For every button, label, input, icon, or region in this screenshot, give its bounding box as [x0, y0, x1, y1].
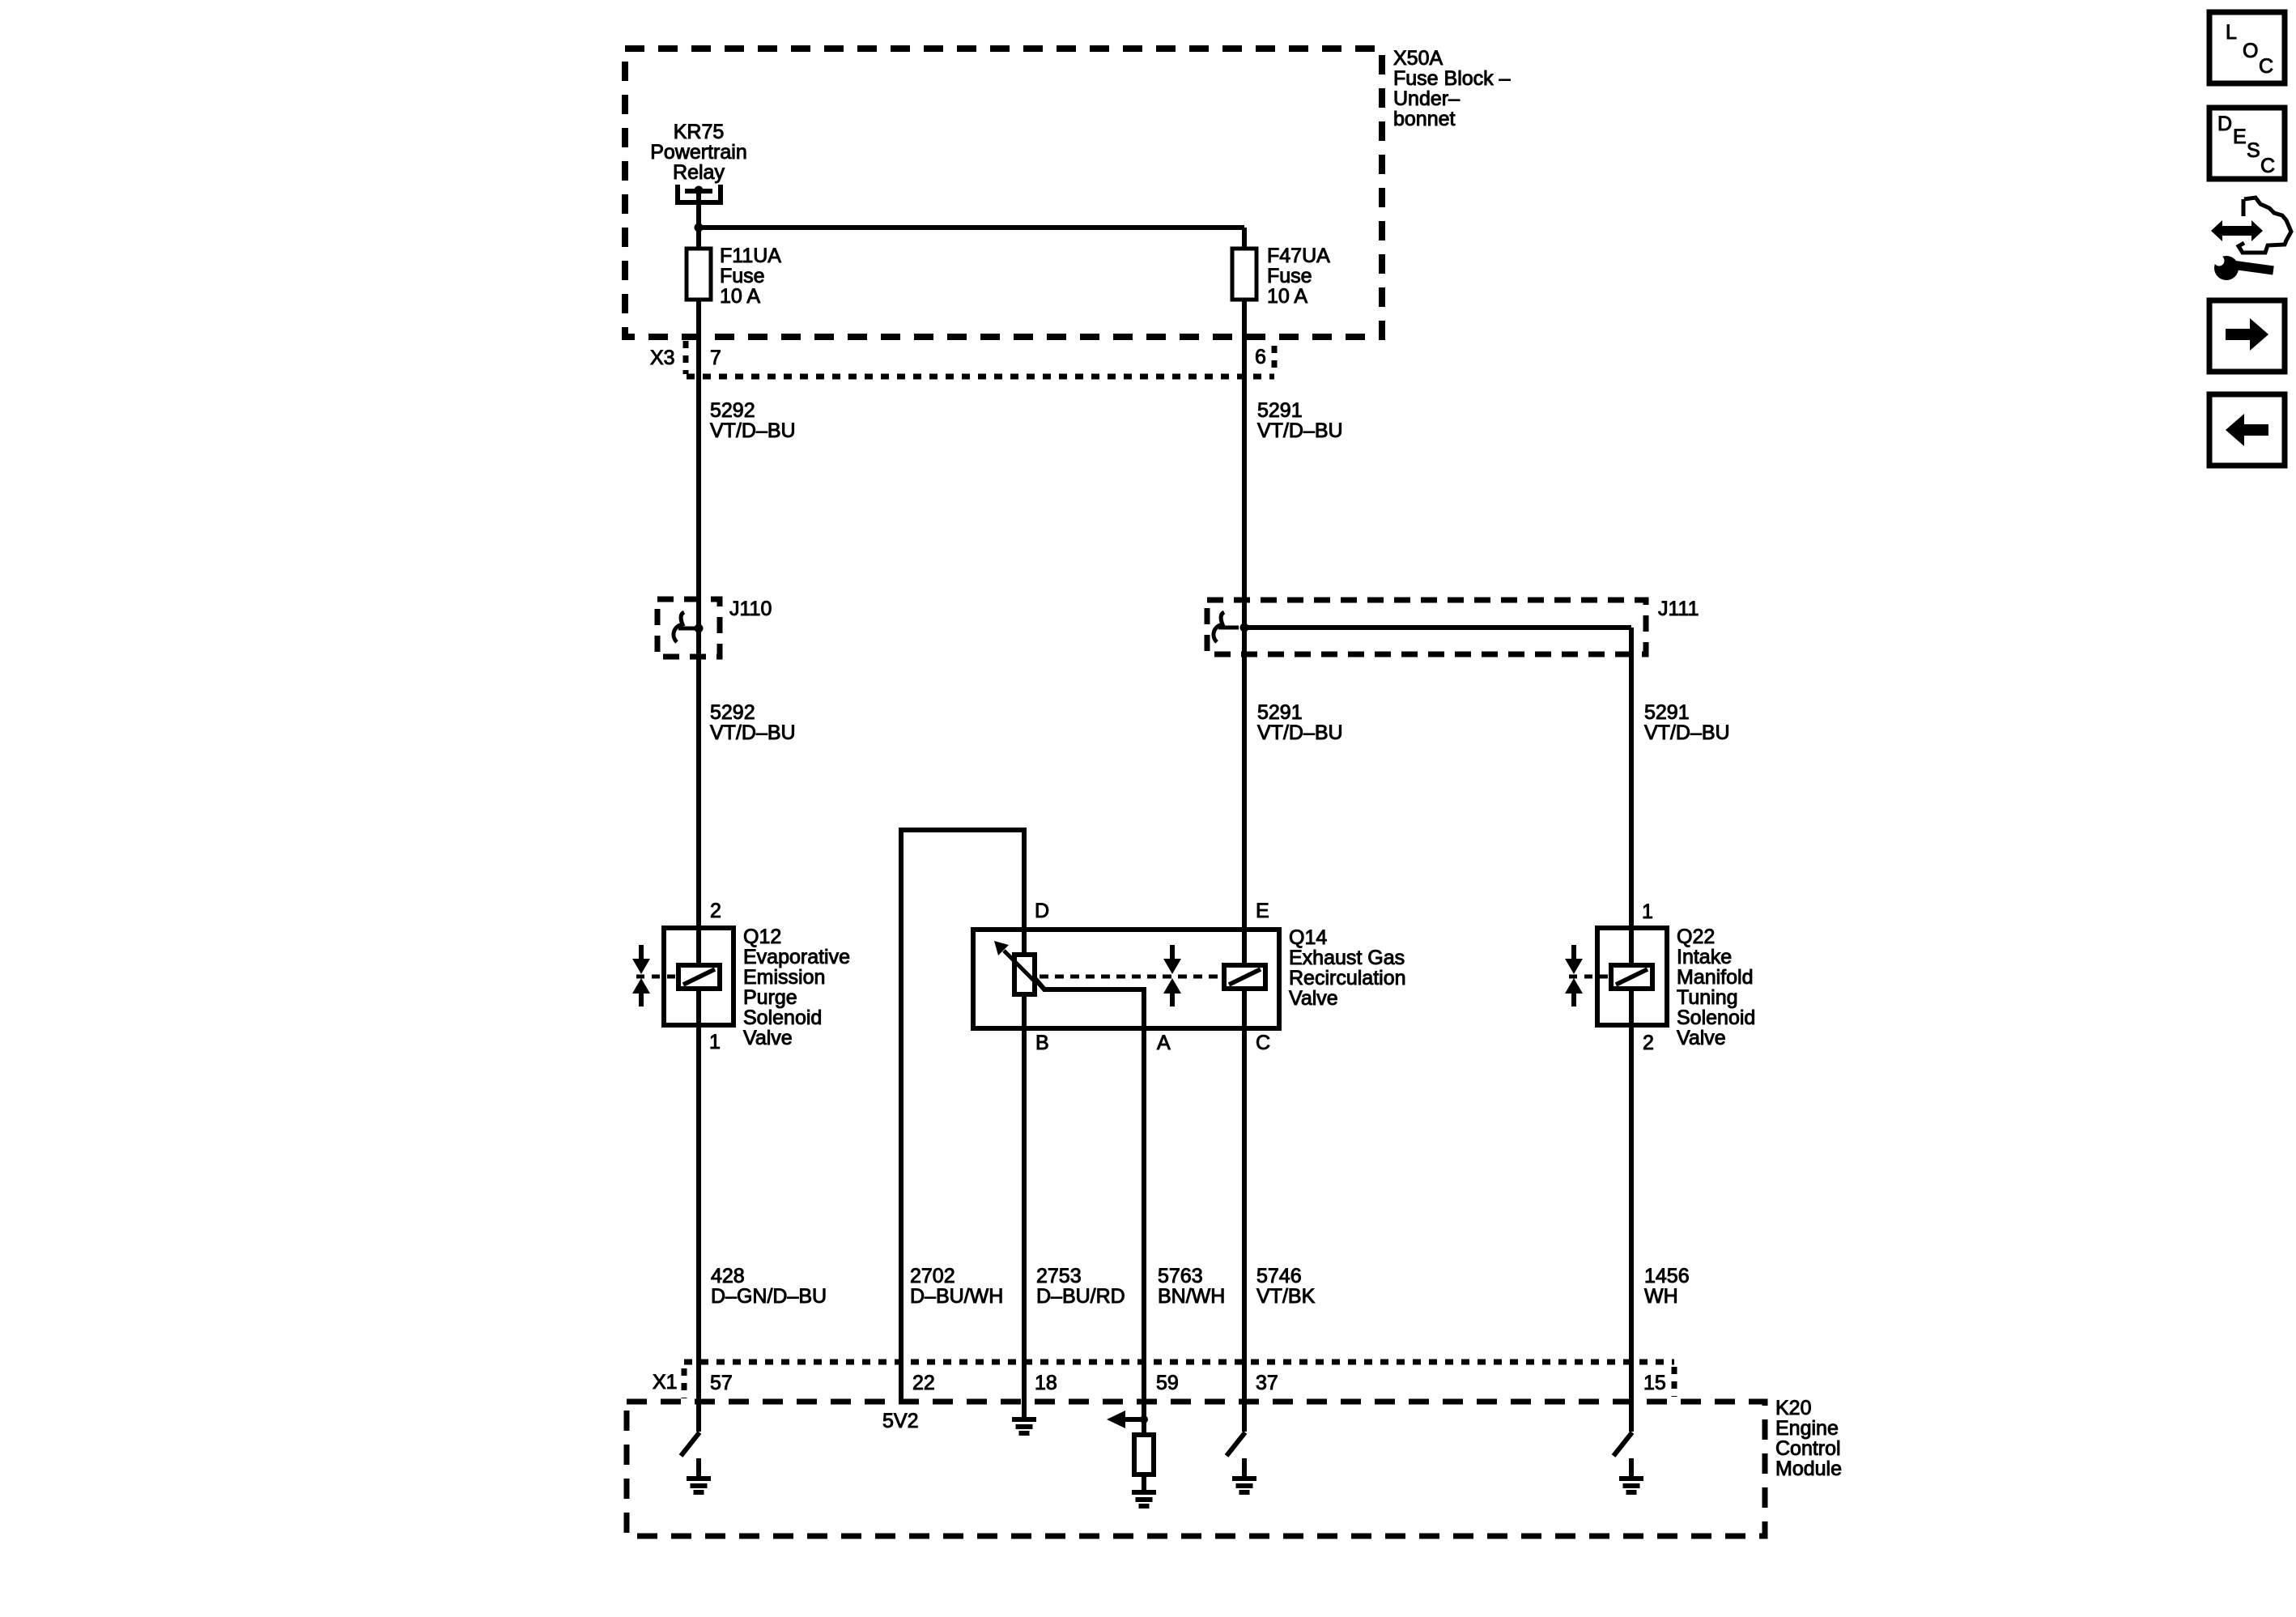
svg-text:J111: J111 [1658, 598, 1699, 620]
svg-text:1456: 1456 [1644, 1265, 1690, 1287]
svg-text:VT/BK: VT/BK [1256, 1285, 1316, 1308]
svg-text:Q14: Q14 [1289, 926, 1327, 949]
svg-text:C: C [1256, 1032, 1270, 1054]
svg-text:Q12: Q12 [743, 926, 781, 948]
svg-text:K20: K20 [1775, 1397, 1811, 1419]
splice J111 hook [1214, 612, 1224, 642]
Q14 actuator arrows [1170, 945, 1175, 960]
svg-text:D: D [1035, 900, 1049, 922]
wire J111 branch to Q22 [1244, 625, 1631, 630]
svg-text:Exhaust Gas: Exhaust Gas [1289, 947, 1405, 969]
wire through Q22 [1629, 928, 1634, 965]
svg-text:5V2: 5V2 [882, 1410, 918, 1432]
wire 5746 Q14 pin C to ECM pin 37 [1242, 1028, 1247, 1432]
Q14 solenoid coil [1224, 965, 1265, 989]
svg-text:J110: J110 [729, 598, 772, 620]
svg-text:D–GN/D–BU: D–GN/D–BU [711, 1285, 827, 1308]
svg-text:37: 37 [1256, 1372, 1278, 1394]
svg-text:Module: Module [1775, 1457, 1842, 1480]
ground (pin 59) [1132, 1490, 1156, 1495]
relay KR75 symbol [675, 185, 680, 202]
valve Q12 solenoid coil [678, 965, 720, 989]
svg-text:Valve: Valve [1289, 987, 1338, 1010]
svg-text:5291: 5291 [1257, 399, 1303, 422]
svg-text:Control: Control [1775, 1437, 1841, 1460]
svg-text:Engine: Engine [1775, 1417, 1839, 1440]
svg-text:bonnet: bonnet [1393, 108, 1456, 130]
svg-text:Fuse Block –: Fuse Block – [1393, 67, 1511, 90]
valve Q22 actuator arrows [1571, 945, 1576, 960]
svg-text:Recirculation: Recirculation [1289, 967, 1406, 989]
icon previous page arrow button [2209, 394, 2285, 466]
svg-text:D: D [2217, 113, 2232, 135]
svg-text:Solenoid: Solenoid [1677, 1006, 1755, 1029]
svg-text:1: 1 [1642, 900, 1653, 923]
svg-text:O: O [2243, 40, 2258, 62]
svg-text:Intake: Intake [1677, 946, 1732, 968]
svg-text:WH: WH [1644, 1285, 1678, 1308]
Q14 pot wires [1022, 930, 1027, 955]
svg-text:2702: 2702 [910, 1265, 955, 1287]
svg-text:Solenoid: Solenoid [743, 1006, 822, 1029]
ground (pin 18) [1012, 1417, 1036, 1422]
svg-text:Valve: Valve [743, 1027, 793, 1049]
svg-text:7: 7 [710, 347, 721, 369]
svg-text:F47UA: F47UA [1267, 245, 1330, 267]
splice J110 hook [674, 612, 684, 642]
svg-text:E: E [2233, 126, 2247, 148]
module K20 ECM dashed box [627, 1402, 1765, 1536]
svg-text:X1: X1 [653, 1371, 678, 1394]
wire feed to F47UA [699, 225, 1244, 230]
fuse F11UA [687, 249, 711, 300]
svg-text:5763: 5763 [1158, 1265, 1203, 1287]
wire 428 Q12 to ECM pin 57 [696, 1025, 701, 1432]
wire relay to fuse F11UA [696, 190, 701, 248]
signal arrow (pin 59) [1124, 1417, 1144, 1422]
svg-text:Purge: Purge [743, 986, 797, 1009]
svg-text:E: E [1256, 900, 1269, 922]
svg-text:5746: 5746 [1256, 1265, 1302, 1287]
svg-text:A: A [1157, 1032, 1171, 1054]
junction node [695, 223, 704, 232]
svg-text:KR75: KR75 [674, 121, 725, 143]
svg-text:VT/D–BU: VT/D–BU [1257, 419, 1343, 442]
fuse block X50A dashed box [625, 49, 1382, 337]
ECM pin 59 sense node [1140, 1415, 1148, 1423]
icon hand with double arrow and wrench [2222, 226, 2252, 236]
svg-text:Under–: Under– [1393, 87, 1460, 110]
Q14 pot arrow [1004, 951, 1038, 985]
svg-text:D–BU/RD: D–BU/RD [1036, 1285, 1125, 1308]
wire through Q12 [696, 928, 701, 965]
svg-text:2: 2 [1643, 1032, 1654, 1054]
svg-text:18: 18 [1035, 1372, 1057, 1394]
ground (pin 15) [1629, 1458, 1634, 1476]
splice J111 dashed box [1207, 600, 1646, 654]
svg-text:22: 22 [912, 1372, 935, 1394]
valve Q12 box [664, 928, 733, 1025]
connector X3 strip [687, 374, 1274, 380]
Q14 mech link dashed line [1040, 975, 1224, 979]
svg-text:Evaporative: Evaporative [743, 946, 850, 968]
svg-text:B: B [1035, 1032, 1049, 1054]
svg-text:2753: 2753 [1036, 1265, 1082, 1287]
svg-text:F11UA: F11UA [720, 245, 781, 267]
svg-text:VT/D–BU: VT/D–BU [1644, 721, 1730, 744]
valve Q22 box [1597, 928, 1667, 1025]
valve Q22 mech link dashes [1569, 975, 1611, 979]
svg-text:Tuning: Tuning [1677, 986, 1738, 1009]
svg-text:X3: X3 [650, 347, 675, 369]
svg-text:5292: 5292 [710, 701, 755, 724]
wire 5292 fuse to Q12 [696, 301, 701, 928]
svg-text:Q22: Q22 [1677, 926, 1715, 948]
icon LOC button [2209, 12, 2285, 83]
Q14 wiper to pin A [1035, 978, 1144, 1028]
svg-text:1: 1 [709, 1031, 721, 1053]
svg-text:C: C [2259, 55, 2273, 78]
ground (pin 57) [696, 1458, 701, 1476]
wire Q14 pin D to ECM pin 22 (5V2 feed) [901, 830, 1024, 1402]
icon next page arrow button [2209, 300, 2285, 372]
svg-text:VT/D–BU: VT/D–BU [710, 419, 796, 442]
svg-text:VT/D–BU: VT/D–BU [710, 721, 796, 744]
svg-text:5291: 5291 [1257, 701, 1303, 724]
svg-text:D–BU/WH: D–BU/WH [910, 1285, 1003, 1308]
svg-text:Relay: Relay [673, 161, 725, 184]
svg-text:10 A: 10 A [720, 285, 760, 308]
svg-text:C: C [2260, 155, 2275, 177]
svg-text:X50A: X50A [1393, 47, 1443, 70]
svg-text:5292: 5292 [710, 399, 755, 422]
wire 5291 fuse to Q14 [1242, 301, 1247, 930]
valve Q14 box [973, 930, 1279, 1028]
wire 5763 Q14 pin A to ECM pin 59 [1142, 1028, 1146, 1419]
svg-text:Manifold: Manifold [1677, 966, 1754, 989]
svg-text:6: 6 [1255, 346, 1266, 368]
svg-text:15: 15 [1643, 1372, 1666, 1394]
svg-text:428: 428 [711, 1265, 745, 1287]
svg-text:57: 57 [710, 1372, 733, 1394]
ECM pin 37 driver switch [1227, 1432, 1245, 1456]
Q14 potentiometer [1014, 955, 1035, 994]
svg-text:10 A: 10 A [1267, 285, 1307, 308]
icon DESC button [2209, 108, 2285, 179]
svg-text:5291: 5291 [1644, 701, 1690, 724]
ground (pin 37) [1242, 1458, 1247, 1476]
ECM pin 57 driver switch [681, 1432, 699, 1456]
svg-text:2: 2 [710, 900, 721, 922]
valve Q12 actuator arrows [639, 945, 644, 960]
ECM pin 15 driver switch [1614, 1432, 1632, 1456]
svg-text:Fuse: Fuse [720, 265, 765, 287]
splice J110 dashed box [657, 599, 720, 657]
fuse F47UA [1232, 249, 1256, 300]
wire 1456 Q22 to ECM pin 15 [1629, 1025, 1634, 1432]
resistor (pin 59 pull-up) [1142, 1419, 1146, 1435]
svg-text:BN/WH: BN/WH [1158, 1285, 1225, 1308]
svg-text:Valve: Valve [1677, 1027, 1726, 1049]
svg-text:S: S [2247, 139, 2260, 162]
wire 2753 Q14 pin B to ECM pin 18 [1022, 1028, 1027, 1419]
svg-text:L: L [2226, 21, 2237, 44]
svg-text:Emission: Emission [743, 966, 825, 989]
valve Q22 solenoid coil [1611, 965, 1652, 989]
svg-text:VT/D–BU: VT/D–BU [1257, 721, 1343, 744]
connector X1 strip [684, 1360, 1674, 1365]
svg-text:59: 59 [1156, 1372, 1179, 1394]
svg-text:Powertrain: Powertrain [650, 141, 747, 164]
wire through Q14 solenoid [1242, 930, 1247, 965]
svg-text:Fuse: Fuse [1267, 265, 1312, 287]
valve Q12 mech link dashes [636, 975, 678, 979]
